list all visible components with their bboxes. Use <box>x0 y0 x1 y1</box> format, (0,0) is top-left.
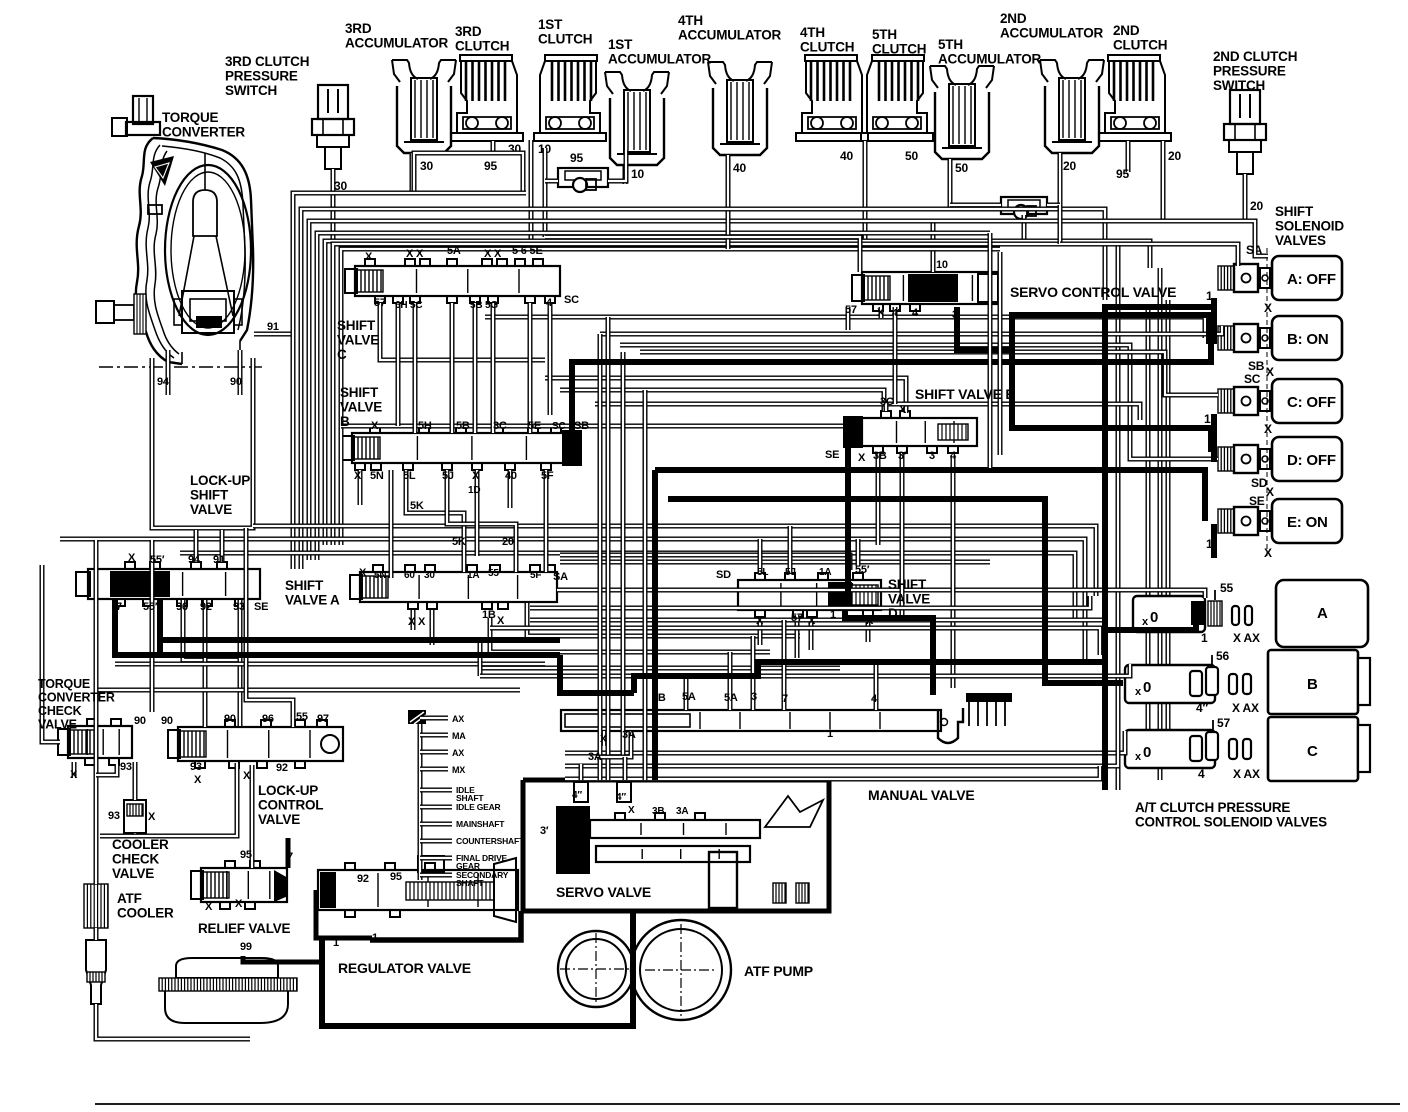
svg-text:1: 1 <box>1204 412 1211 426</box>
svg-text:56: 56 <box>1216 649 1229 663</box>
svg-text:5K: 5K <box>452 536 466 548</box>
svg-text:D: OFF: D: OFF <box>1287 452 1336 469</box>
svg-text:20: 20 <box>502 536 514 548</box>
shift valve D <box>738 573 881 617</box>
svg-text:AX: AX <box>452 714 464 724</box>
svg-text:X: X <box>354 470 362 482</box>
svg-text:5E: 5E <box>528 420 541 432</box>
wire mid y345 <box>620 345 1218 459</box>
svg-text:40: 40 <box>840 149 853 163</box>
svg-text:94: 94 <box>157 376 170 388</box>
thick E feed <box>655 470 1205 521</box>
relief valve <box>191 861 288 909</box>
wire mid y539 <box>60 539 1085 665</box>
servo 4in ports <box>574 782 631 802</box>
svg-text:X: X <box>148 811 156 823</box>
svg-text:IDLE GEAR: IDLE GEAR <box>456 802 501 812</box>
svg-text:X: X <box>808 615 816 627</box>
svg-text:55: 55 <box>1220 581 1233 595</box>
wire low y620 <box>490 620 1105 655</box>
svg-text:B: B <box>1307 676 1318 693</box>
svg-text:COOLER: COOLER <box>112 837 169 852</box>
shift solenoid valve A <box>1218 256 1342 300</box>
svg-text:SB: SB <box>574 420 589 432</box>
svg-text:VALVE: VALVE <box>340 400 382 415</box>
svg-text:CLUTCH: CLUTCH <box>1113 38 1167 53</box>
A/T pressure control unit B <box>1125 649 1370 715</box>
svg-text:1: 1 <box>1201 631 1208 645</box>
svg-text:3RD CLUTCH: 3RD CLUTCH <box>225 54 309 69</box>
svg-text:3A: 3A <box>622 729 636 741</box>
svg-text:3: 3 <box>952 309 958 321</box>
svg-text:40: 40 <box>505 470 517 482</box>
svg-text:X X: X X <box>408 616 426 628</box>
svg-text:55′: 55′ <box>150 554 165 566</box>
svg-text:CONVERTER: CONVERTER <box>162 125 245 140</box>
svg-text:95: 95 <box>1116 167 1129 181</box>
2nd clutch <box>1099 55 1181 221</box>
svg-text:20: 20 <box>1168 149 1181 163</box>
wire low y676 <box>480 640 1130 676</box>
bus y209 <box>301 209 1105 569</box>
svg-text:3RD: 3RD <box>455 24 482 39</box>
ATF cooler <box>84 884 108 928</box>
svg-text:CLUTCH: CLUTCH <box>538 32 592 47</box>
svg-text:1A: 1A <box>467 570 479 581</box>
solenoid port labels <box>1204 243 1274 560</box>
1st accumulator <box>605 72 669 184</box>
svg-text:PRESSURE: PRESSURE <box>1213 64 1286 79</box>
5th accumulator <box>930 66 994 207</box>
svg-text:5TH: 5TH <box>938 37 963 52</box>
svg-text:2ND: 2ND <box>1113 23 1140 38</box>
svg-text:93: 93 <box>120 761 132 773</box>
svg-text:4TH: 4TH <box>678 13 703 28</box>
manual valve body <box>561 693 1012 743</box>
svg-text:4TH: 4TH <box>800 25 825 40</box>
svg-text:0: 0 <box>1143 744 1151 761</box>
regulator valve <box>318 856 518 922</box>
mechanism ports <box>420 714 525 888</box>
svg-text:96: 96 <box>176 601 188 613</box>
svg-text:1: 1 <box>830 609 836 621</box>
svg-text:3′: 3′ <box>898 450 907 462</box>
servo ports <box>581 757 645 780</box>
thick servo-regulator <box>370 911 521 940</box>
svg-text:1ST: 1ST <box>608 37 633 52</box>
svg-text:30: 30 <box>420 159 433 173</box>
svg-text:SHIFT: SHIFT <box>340 385 379 400</box>
thick to unit B <box>668 499 1123 683</box>
svg-text:VALVES: VALVES <box>1275 233 1326 248</box>
shift solenoid valve E <box>1218 499 1342 543</box>
shift valve B <box>342 426 582 470</box>
servo valve <box>523 780 829 911</box>
wire low y690 <box>95 688 520 693</box>
clutch pair trunk 1 <box>531 140 545 241</box>
svg-text:X: X <box>359 567 367 579</box>
svg-text:X: X <box>371 420 379 432</box>
svg-text:SHIFT: SHIFT <box>337 318 376 333</box>
svg-text:1: 1 <box>827 728 833 740</box>
svg-text:3C: 3C <box>493 420 507 432</box>
svg-text:SOLENOID: SOLENOID <box>1275 219 1344 234</box>
wire mid y334 <box>600 326 1222 334</box>
wire mid y390 <box>560 390 884 411</box>
svg-text:1ST: 1ST <box>538 17 563 32</box>
svg-text:5L: 5L <box>757 567 768 578</box>
svg-text:X X: X X <box>484 248 502 260</box>
svg-text:90: 90 <box>224 713 236 725</box>
svg-text:ATF: ATF <box>117 891 142 906</box>
thick SE down <box>845 448 851 596</box>
svg-text:SHIFT: SHIFT <box>1275 204 1314 219</box>
svg-text:SWITCH: SWITCH <box>1213 78 1265 93</box>
svg-text:93: 93 <box>190 761 202 773</box>
svg-text:55′: 55′ <box>143 601 158 613</box>
2nd accumulator <box>1040 60 1104 207</box>
svg-text:VALVE: VALVE <box>337 333 379 348</box>
svg-text:92: 92 <box>200 601 212 613</box>
bus y241 <box>325 241 1150 545</box>
svg-text:3A: 3A <box>588 751 602 763</box>
svg-text:REGULATOR VALVE: REGULATOR VALVE <box>338 960 471 976</box>
svg-text:X: X <box>194 774 202 786</box>
svg-text:MAINSHAFT: MAINSHAFT <box>456 819 505 829</box>
bus drops x990 <box>990 233 1000 468</box>
svg-text:0: 0 <box>1143 679 1151 696</box>
svg-text:VALVE: VALVE <box>112 866 154 881</box>
svg-text:TORQUE: TORQUE <box>38 677 90 691</box>
bus 95 line <box>545 237 860 272</box>
svg-text:SE: SE <box>254 601 268 613</box>
bus y233 <box>317 233 990 560</box>
valve A drops <box>183 600 800 727</box>
svg-text:5N: 5N <box>370 470 384 482</box>
manual valve bottom ports <box>597 731 631 757</box>
svg-text:5J: 5J <box>785 567 796 578</box>
thick pump loop <box>322 911 633 1026</box>
svg-text:90: 90 <box>230 376 242 388</box>
svg-text:X: X <box>628 805 635 816</box>
svg-text:SA: SA <box>553 571 568 583</box>
svg-text:CLUTCH: CLUTCH <box>455 39 509 54</box>
svg-text:3C: 3C <box>880 396 894 408</box>
91 pipe <box>254 321 293 334</box>
wire low y753 <box>565 731 1125 753</box>
ATF pump <box>558 920 731 1020</box>
svg-text:C: C <box>1307 743 1318 760</box>
svg-text:X: X <box>1264 301 1272 315</box>
svg-text:X: X <box>600 734 607 745</box>
svg-text:MANUAL VALVE: MANUAL VALVE <box>868 787 975 803</box>
mid verticals <box>600 317 645 780</box>
svg-text:X AX: X AX <box>1232 701 1259 715</box>
svg-text:1D: 1D <box>468 485 480 496</box>
svg-text:50: 50 <box>955 161 968 175</box>
torque converter check valve <box>58 719 132 765</box>
svg-text:LOCK-UP: LOCK-UP <box>258 783 318 798</box>
shift solenoid valve B <box>1218 316 1342 360</box>
svg-text:4″: 4″ <box>572 790 582 801</box>
orifice symbol 1 <box>545 150 626 192</box>
svg-text:4: 4 <box>1198 767 1205 781</box>
svg-text:SC: SC <box>564 294 579 306</box>
wire mid y562 <box>560 560 990 565</box>
svg-text:90: 90 <box>161 715 173 727</box>
svg-text:20: 20 <box>1063 159 1076 173</box>
svg-text:X: X <box>1264 422 1272 436</box>
svg-text:91: 91 <box>213 554 225 566</box>
svg-text:X: X <box>899 404 907 416</box>
ATF strainer <box>159 958 297 1023</box>
valve C drops <box>380 303 550 433</box>
svg-text:5B 5G: 5B 5G <box>470 300 498 311</box>
svg-text:ACCUMULATOR: ACCUMULATOR <box>1000 26 1103 41</box>
wire mid y526 <box>253 526 1096 596</box>
wire SA <box>557 455 1205 688</box>
svg-text:40: 40 <box>733 161 746 175</box>
wire mid y317 <box>485 317 1205 338</box>
svg-text:SHIFT VALVE E: SHIFT VALVE E <box>915 386 1015 402</box>
svg-text:X X: X X <box>406 248 424 260</box>
svg-text:X: X <box>243 770 251 782</box>
cooler outlet filter <box>86 940 106 1004</box>
shift valve A <box>76 562 557 609</box>
svg-text:TORQUE: TORQUE <box>162 110 219 125</box>
left pipes <box>42 540 288 1039</box>
svg-text:X: X <box>866 615 874 627</box>
svg-text:2ND: 2ND <box>1000 11 1027 26</box>
shift valve E <box>843 411 977 453</box>
svg-text:5H: 5H <box>418 420 432 432</box>
svg-text:60: 60 <box>404 570 415 581</box>
svg-text:X AX: X AX <box>1233 767 1260 781</box>
svg-text:SHIFT: SHIFT <box>888 577 927 592</box>
svg-text:CONTROL: CONTROL <box>258 798 323 813</box>
A/T pressure control unit A <box>1133 580 1368 647</box>
svg-text:X: X <box>497 615 505 627</box>
svg-text:94: 94 <box>188 554 201 566</box>
svg-text:X: X <box>128 552 136 564</box>
svg-text:B: B <box>340 414 350 429</box>
svg-text:AX: AX <box>452 748 464 758</box>
orifice symbol 2 <box>950 197 1060 244</box>
shift solenoid valve D <box>1218 437 1342 481</box>
svg-text:4″: 4″ <box>616 792 626 803</box>
torque converter <box>96 96 262 367</box>
svg-text:MA: MA <box>452 731 466 741</box>
thick x655 <box>652 470 658 780</box>
svg-text:10: 10 <box>631 167 644 181</box>
svg-text:D: D <box>888 606 898 621</box>
svg-text:5N: 5N <box>374 570 386 581</box>
svg-text:95: 95 <box>390 871 402 883</box>
3rd accumulator <box>392 60 456 193</box>
svg-text:C: OFF: C: OFF <box>1287 394 1336 411</box>
svg-text:MX: MX <box>452 765 465 775</box>
svg-text:VALVE: VALVE <box>888 592 930 607</box>
thick servo 3 to D <box>957 307 1211 452</box>
svg-text:X: X <box>70 769 78 781</box>
svg-text:4″: 4″ <box>1196 701 1208 715</box>
svg-text:X: X <box>365 251 373 263</box>
svg-text:1: 1 <box>372 932 378 944</box>
svg-text:X: X <box>858 452 866 464</box>
svg-text:E: ON: E: ON <box>1287 514 1328 531</box>
svg-text:92: 92 <box>276 762 288 774</box>
svg-text:CONTROL SOLENOID VALVES: CONTROL SOLENOID VALVES <box>1135 815 1327 830</box>
svg-text:ACCUMULATOR: ACCUMULATOR <box>345 36 448 51</box>
svg-text:97: 97 <box>317 713 329 725</box>
svg-text:3RD: 3RD <box>345 21 372 36</box>
svg-text:5TH: 5TH <box>872 27 897 42</box>
port labels <box>70 245 958 953</box>
manual valve top ports <box>686 620 876 710</box>
svg-text:5A: 5A <box>724 692 738 704</box>
svg-text:6H 5C: 6H 5C <box>395 300 422 311</box>
svg-text:ATF PUMP: ATF PUMP <box>744 963 813 979</box>
svg-text:CLUTCH: CLUTCH <box>872 42 926 57</box>
thick valve D down <box>634 610 1105 695</box>
svg-text:93: 93 <box>233 601 245 613</box>
svg-text:CHECK: CHECK <box>112 852 159 867</box>
svg-text:3: 3 <box>929 450 935 462</box>
wire mid y332b <box>640 352 1218 395</box>
svg-text:ACCUMULATOR: ACCUMULATOR <box>678 28 781 43</box>
thick left loop <box>115 600 560 655</box>
svg-text:CONVERTER: CONVERTER <box>38 691 115 705</box>
svg-text:X AX: X AX <box>1233 631 1260 645</box>
svg-text:A: OFF: A: OFF <box>1287 271 1336 288</box>
valve B drops <box>360 470 546 578</box>
svg-text:SC: SC <box>552 421 566 432</box>
lock-up control valve <box>168 720 343 768</box>
svg-text:7: 7 <box>782 693 788 705</box>
1st clutch <box>534 55 606 165</box>
svg-text:5 6 5E: 5 6 5E <box>512 245 543 257</box>
svg-text:5L: 5L <box>403 470 416 482</box>
svg-text:X: X <box>877 307 885 319</box>
shift solenoid valve C <box>1218 379 1342 423</box>
left pipes2 <box>152 528 293 727</box>
svg-text:91: 91 <box>267 321 279 333</box>
thick regulator left <box>316 890 372 938</box>
svg-text:2ND CLUTCH: 2ND CLUTCH <box>1213 49 1297 64</box>
lock-up shift valve box <box>152 350 253 528</box>
svg-text:3B: 3B <box>873 450 887 462</box>
svg-text:7: 7 <box>116 601 122 613</box>
svg-text:ACCUMULATOR: ACCUMULATOR <box>608 52 711 67</box>
svg-text:X: X <box>472 470 480 482</box>
svg-text:5A: 5A <box>682 691 696 703</box>
svg-text:COOLER: COOLER <box>117 906 174 921</box>
bus y221 <box>309 221 1268 560</box>
svg-text:CLUTCH: CLUTCH <box>800 40 854 55</box>
svg-text:VALVE: VALVE <box>258 812 300 827</box>
svg-text:SHAFT: SHAFT <box>456 878 484 888</box>
svg-text:57: 57 <box>845 304 857 316</box>
wire low y766 <box>565 748 1118 766</box>
servo control valve <box>852 221 1000 311</box>
clutch pair trunk 2 <box>863 141 868 246</box>
svg-text:7: 7 <box>287 851 293 863</box>
svg-text:SE: SE <box>825 449 839 461</box>
wire mid y553 <box>180 553 1075 620</box>
svg-text:57: 57 <box>791 612 803 624</box>
svg-text:C: C <box>337 347 347 362</box>
wire low y668 <box>480 666 840 671</box>
wire mid y404 <box>595 404 1140 420</box>
svg-text:0: 0 <box>1150 609 1158 626</box>
wire low y779 <box>565 766 1100 779</box>
svg-text:SERVO VALVE: SERVO VALVE <box>556 884 651 900</box>
cooler check valve <box>124 800 146 833</box>
svg-text:5B: 5B <box>456 420 470 432</box>
2nd clutch pressure switch <box>1224 90 1266 221</box>
svg-text:5F: 5F <box>530 570 541 581</box>
svg-text:57: 57 <box>374 297 386 309</box>
svg-text:92: 92 <box>357 873 369 885</box>
4th accumulator <box>708 62 772 214</box>
svg-text:1A: 1A <box>819 567 831 578</box>
svg-text:X: X <box>1264 546 1272 560</box>
thick strainer 99 <box>243 956 322 962</box>
svg-text:SD: SD <box>716 569 731 581</box>
svg-text:X: X <box>205 901 213 913</box>
svg-text:ACCUMULATOR: ACCUMULATOR <box>938 52 1041 67</box>
svg-text:99: 99 <box>240 941 252 953</box>
svg-text:VALVE: VALVE <box>38 718 77 732</box>
svg-text:SHIFT: SHIFT <box>190 488 229 503</box>
svg-text:X: X <box>235 898 243 910</box>
5th clutch <box>861 55 933 163</box>
wire low y608 <box>530 596 1090 608</box>
svg-text:SC: SC <box>1244 372 1261 386</box>
wire mid y426 <box>341 424 843 429</box>
svg-text:10: 10 <box>936 259 948 271</box>
svg-text:96: 96 <box>262 713 274 725</box>
svg-text:90: 90 <box>134 715 146 727</box>
svg-text:4′: 4′ <box>892 308 900 319</box>
svg-text:57: 57 <box>1217 716 1230 730</box>
bus y252 <box>341 214 1000 545</box>
thick y688 <box>560 655 634 693</box>
bottom border <box>95 1103 1400 1105</box>
wire low y664 <box>115 662 545 667</box>
svg-text:SWITCH: SWITCH <box>225 83 277 98</box>
3rd clutch <box>451 55 523 173</box>
svg-text:VALVE A: VALVE A <box>285 593 340 608</box>
svg-text:A: A <box>1317 605 1328 622</box>
bus y194 <box>293 193 414 569</box>
svg-text:30: 30 <box>424 570 435 581</box>
svg-text:93: 93 <box>108 810 120 822</box>
4th clutch <box>796 55 868 163</box>
thick SB line <box>572 344 1211 436</box>
svg-text:55′: 55′ <box>488 568 502 579</box>
shift valve C <box>345 259 560 303</box>
svg-text:55: 55 <box>296 711 308 723</box>
svg-text:A/T CLUTCH PRESSURE: A/T CLUTCH PRESSURE <box>1135 800 1290 815</box>
A/T pressure control unit C <box>1125 716 1370 781</box>
svg-text:3B: 3B <box>652 806 664 817</box>
svg-text:3: 3 <box>751 691 757 703</box>
svg-text:1B: 1B <box>482 609 496 621</box>
3rd clutch pressure switch <box>312 85 354 545</box>
svg-text:95: 95 <box>240 849 252 861</box>
svg-text:95: 95 <box>570 151 583 165</box>
